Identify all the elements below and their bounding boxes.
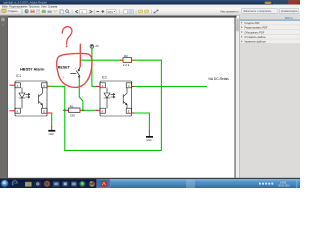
comments tab button	[279, 8, 299, 13]
taskbar icon folder	[25, 182, 32, 187]
panel row: edit pdf	[240, 25, 300, 30]
nav strip page icon	[1, 18, 5, 21]
svg-text:C: C	[128, 84, 130, 88]
svg-text:2,2 k: 2,2 k	[123, 63, 130, 67]
toolbar	[0, 9, 300, 16]
svg-text:Объединить PDF: Объединить PDF	[244, 31, 264, 34]
icon search	[66, 10, 69, 13]
svg-text:14:05: 14:05	[280, 181, 287, 184]
gnd GND2 pin	[148, 131, 150, 136]
window min/max buttons	[273, 0, 288, 4]
pin R1.right	[80, 109, 84, 111]
optocoupler IC2	[100, 75, 132, 116]
node junction +5V rail	[91, 59, 93, 61]
svg-text:GND: GND	[49, 133, 55, 136]
svg-text:C: C	[43, 84, 45, 88]
icon send	[42, 10, 46, 13]
resistor R1	[69, 105, 81, 118]
open button: folder icon	[2, 9, 6, 12]
panel blue divider	[240, 19, 300, 22]
pin IC2.K stub	[97, 109, 100, 111]
svg-text:Комментарии: Комментарии	[281, 9, 298, 13]
open button border	[1, 9, 22, 15]
toolbar separator	[93, 9, 96, 14]
toolbar separator	[150, 9, 153, 14]
wire switch top to +5V rail	[80, 60, 120, 62]
svg-text:IC1: IC1	[16, 74, 21, 78]
taskbar icon dim overlay	[9, 179, 96, 188]
panel left border	[238, 16, 241, 178]
toolbar separator	[71, 9, 74, 14]
icon printer	[48, 10, 52, 12]
pin IC2.C stub	[132, 86, 135, 88]
page prev arrow	[76, 10, 79, 13]
svg-text:Открыть: Открыть	[8, 9, 19, 13]
ground GND2	[146, 136, 153, 142]
pin IC2.E stub	[132, 112, 135, 114]
annotation circle around RESET	[57, 54, 92, 88]
page right edge line	[235, 16, 236, 178]
taskbar active tile adobe reader	[97, 179, 110, 188]
icon pages	[60, 9, 63, 13]
svg-text:Войти: Войти	[285, 16, 293, 20]
gnd GND1 pin	[51, 126, 53, 130]
titlebar orange icon	[265, 2, 272, 4]
taskbar icon firefox	[44, 181, 50, 187]
page number box	[80, 10, 87, 14]
taskbar icon gray app	[71, 182, 76, 187]
wire IC2.C to NA DC-Relais	[135, 86, 207, 88]
IC1 LED	[19, 88, 25, 108]
wire node X to IC2.K	[84, 109, 97, 111]
pin IC1.C stub	[47, 85, 50, 87]
wire IC1.K left	[10, 110, 15, 112]
svg-text:Заполнить и подписать: Заполнить и подписать	[244, 9, 273, 13]
menu bar	[0, 5, 300, 9]
zoom percent box	[106, 10, 116, 14]
power +5V	[90, 45, 99, 49]
toolbar bottom dark band	[0, 16, 237, 18]
icon mail	[53, 10, 57, 13]
taskbar icon blue doc	[62, 181, 68, 186]
window close button	[289, 0, 300, 4]
show desktop button	[296, 179, 299, 188]
taskbar	[0, 179, 300, 188]
icon create-pdf	[25, 9, 29, 13]
taskbar icon ie	[12, 181, 17, 186]
taskbar icon green messenger	[79, 181, 85, 187]
window bottom border	[0, 178, 300, 179]
annotation question mark	[62, 27, 72, 44]
zoom plus	[101, 10, 104, 13]
panel row: create pdf	[240, 21, 300, 26]
view mode icon 1	[124, 10, 128, 14]
document page	[8, 18, 235, 178]
IC1 phototransistor	[39, 88, 43, 108]
pin IC2.A stub	[97, 85, 100, 87]
wire IC1.E down	[51, 113, 53, 126]
svg-text:A: A	[17, 84, 19, 88]
IC2 phototransistor	[123, 88, 127, 108]
right tools panel	[240, 14, 300, 178]
toolbar separator	[135, 9, 138, 14]
wire R2.right loop down and left	[65, 60, 162, 150]
pin R2.right	[132, 59, 135, 61]
svg-text:HBS57 Alarm: HBS57 Alarm	[20, 66, 45, 71]
svg-text:+5V: +5V	[95, 45, 100, 48]
svg-text:A: A	[102, 84, 104, 88]
pin R1.left	[63, 109, 68, 111]
taskbar icon media navy-orange	[35, 181, 41, 186]
taskbar icon chrome	[89, 181, 95, 187]
wire +5V down to IC2.A	[92, 48, 97, 86]
svg-text:Хранение файлов: Хранение файлов	[244, 41, 266, 44]
annotation question dot	[66, 45, 68, 47]
svg-text:RESET: RESET	[58, 66, 71, 70]
svg-text:K: K	[17, 109, 19, 113]
ground GND1	[48, 130, 55, 136]
annotation pointer line	[79, 44, 81, 67]
panel row: combine pdf	[240, 30, 300, 35]
svg-text:330: 330	[70, 114, 75, 118]
share icon	[154, 10, 158, 13]
svg-text:K: K	[102, 109, 104, 113]
tray icons	[259, 183, 273, 185]
comment bubble icon	[139, 10, 143, 13]
fill-sign tab button	[242, 8, 279, 13]
svg-text:NA DC-Relais: NA DC-Relais	[209, 77, 230, 81]
wire IC2.E to GND2	[135, 113, 150, 131]
node R1 left junction	[64, 109, 66, 111]
panel row: store files	[240, 39, 300, 44]
svg-text:E: E	[43, 109, 45, 113]
svg-text:R2: R2	[124, 54, 128, 58]
panel row: send files	[240, 35, 300, 40]
pin IC1.E stub	[47, 112, 52, 114]
svg-text:Создать PDF: Создать PDF	[244, 22, 260, 25]
toolbar separator	[119, 9, 122, 14]
svg-text:Отправить файлы: Отправить файлы	[244, 36, 265, 39]
switch S1	[63, 62, 80, 79]
taskbar icon cloud app	[53, 181, 59, 186]
svg-text:gabrligh.ru_6.0.2007_Adobe Rea: gabrligh.ru_6.0.2007_Adobe Reader	[4, 1, 48, 5]
scrollbar thumb	[236, 19, 239, 32]
taskbar start orb	[1, 180, 9, 188]
wire IC1.A left	[10, 84, 15, 86]
icon print-doc	[36, 9, 39, 13]
svg-text:Файл Редактирование Просмотр: Файл Редактирование Просмотр Окно Справк…	[2, 6, 58, 9]
pin R2.left	[121, 59, 123, 61]
svg-text:Инструменты: Инструменты	[221, 10, 239, 14]
resistor R2	[123, 54, 132, 67]
view mode icon 2	[129, 10, 133, 14]
svg-text:05.06.2016: 05.06.2016	[278, 186, 290, 188]
toolbar separator	[22, 9, 25, 14]
wire switch bottom down to node X	[79, 77, 83, 110]
optocoupler IC1	[15, 74, 47, 116]
svg-text:E: E	[128, 109, 130, 113]
icon save	[31, 10, 35, 13]
svg-text:50%: 50%	[107, 10, 113, 14]
left nav strip	[0, 16, 8, 178]
scrollbar track	[236, 18, 240, 178]
page next arrow	[90, 10, 93, 13]
svg-text:Редактировать PDF: Редактировать PDF	[244, 27, 267, 30]
zoom minus	[96, 10, 99, 13]
title bar	[0, 0, 300, 5]
highlight icon	[145, 10, 149, 13]
svg-text:IC2: IC2	[102, 75, 107, 79]
wire IC1.C to R1 node	[50, 86, 65, 150]
IC2 LED	[104, 88, 110, 108]
node X junction	[82, 109, 84, 111]
svg-text:GND: GND	[146, 139, 152, 142]
